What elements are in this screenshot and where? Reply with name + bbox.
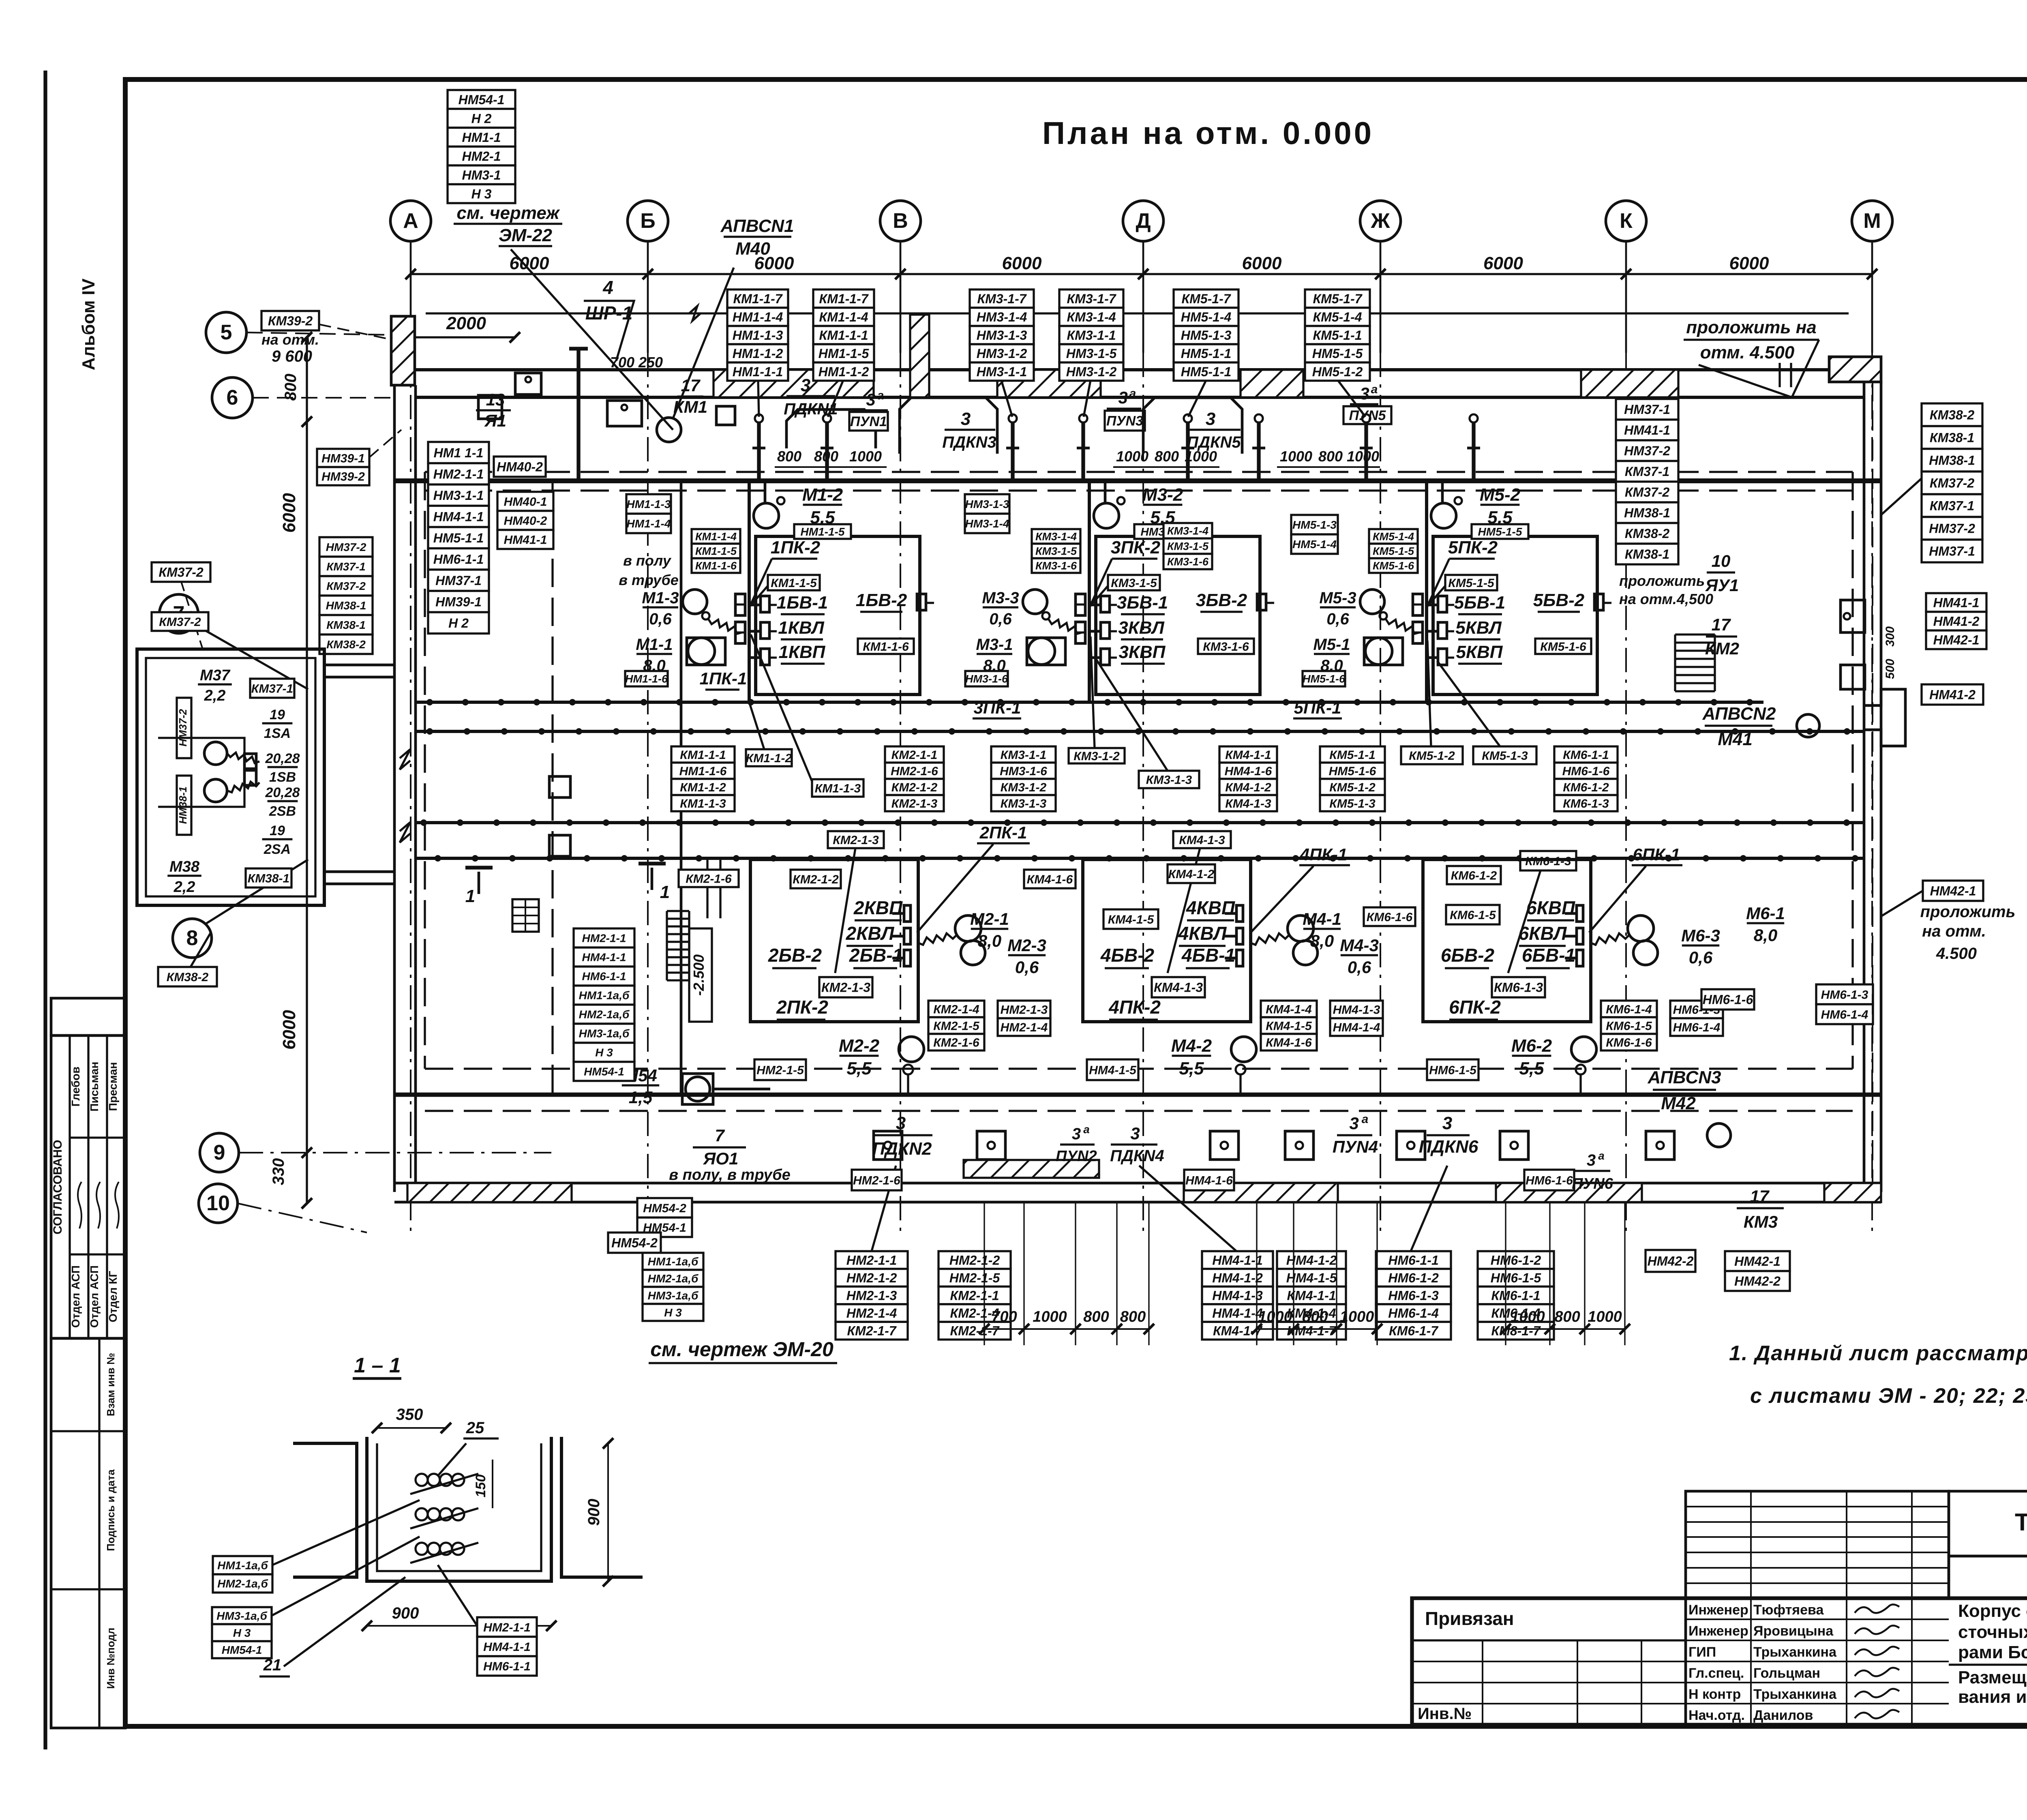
label 3КВЛ xyxy=(1118,618,1164,639)
svg-text:0,6: 0,6 xyxy=(1326,610,1349,628)
svg-text:М42: М42 xyxy=(1661,1093,1696,1113)
svg-text:КМ3-1-6: КМ3-1-6 xyxy=(1035,560,1077,572)
leader KM1-1-2 to riser xyxy=(750,705,764,749)
label APVS N1 / M40 xyxy=(720,216,794,259)
stack NM2-1-1 group bottom xyxy=(836,1251,908,1340)
grid circle 9 xyxy=(200,1133,239,1172)
label 1ПК-2 xyxy=(771,538,821,559)
label stack NM3-1-3/NM3-1-4 xyxy=(965,494,1009,533)
KM1 contactor box with pin xyxy=(607,401,642,426)
svg-text:КМ37-2: КМ37-2 xyxy=(159,565,204,580)
svg-text:6000: 6000 xyxy=(1002,253,1042,273)
leader KM6-1-3 to unit6 box xyxy=(1508,870,1541,973)
label KM2-1-2 single xyxy=(791,870,841,888)
label 5БВ-2 xyxy=(1533,590,1585,612)
svg-text:План на отм. 0.000: План на отм. 0.000 xyxy=(1042,115,1374,151)
svg-text:4БВ-1: 4БВ-1 xyxy=(1181,945,1235,966)
svg-text:НМ40-2: НМ40-2 xyxy=(504,514,547,527)
svg-text:НМ2-1-6: НМ2-1-6 xyxy=(853,1174,900,1187)
svg-text:СОГЛАСОВАНО: СОГЛАСОВАНО xyxy=(51,1140,64,1235)
svg-text:НМ4-1-6: НМ4-1-6 xyxy=(1185,1174,1233,1187)
svg-text:НМ6-1-6: НМ6-1-6 xyxy=(1703,993,1753,1007)
svg-text:Размещение электрооборудо-: Размещение электрооборудо- xyxy=(1958,1668,2027,1687)
svg-text:КМ6-1-6: КМ6-1-6 xyxy=(1606,1036,1652,1049)
svg-text:300: 300 xyxy=(1883,626,1897,647)
svg-text:вания и прокладка кабеля: вания и прокладка кабеля xyxy=(1958,1687,2027,1707)
svg-text:КМ3-1-5: КМ3-1-5 xyxy=(1035,545,1077,557)
right wall cable risers xyxy=(1872,381,1873,1183)
svg-text:НМ6-1-1: НМ6-1-1 xyxy=(1388,1253,1438,1267)
svg-text:2КВП: 2КВП xyxy=(853,897,903,918)
dimension 2000 top-left xyxy=(402,313,520,343)
svg-text:КМ2-1-5: КМ2-1-5 xyxy=(933,1019,980,1033)
grid circle В xyxy=(880,201,921,353)
svg-text:1ПК-1: 1ПК-1 xyxy=(700,669,747,688)
svg-text:НМ5-1-1: НМ5-1-1 xyxy=(1181,346,1231,361)
stack NM2-1-2 group bottom xyxy=(939,1251,1011,1340)
title block upper table xyxy=(1686,1491,1949,1598)
svg-text:НМ3-1-6: НМ3-1-6 xyxy=(1000,765,1047,778)
stack KM2-1-4,5,6 bottom xyxy=(928,1001,984,1050)
svg-text:ПУN6: ПУN6 xyxy=(1572,1175,1613,1192)
svg-text:3КВП: 3КВП xyxy=(1119,642,1166,662)
svg-text:Альбом IV: Альбом IV xyxy=(79,278,99,370)
svg-text:КМ37-1: КМ37-1 xyxy=(1625,464,1669,479)
svg-text:Инженер: Инженер xyxy=(1688,1623,1748,1639)
label M4-1/8,0 xyxy=(1303,909,1341,950)
svg-text:НМ1-1-6: НМ1-1-6 xyxy=(679,765,727,778)
top wall double line xyxy=(416,368,1864,371)
svg-text:КМ6-1-3: КМ6-1-3 xyxy=(1494,980,1543,995)
svg-text:3: 3 xyxy=(801,375,810,395)
label M2-1/8,0 xyxy=(970,909,1009,950)
label NM6-1-6 single right xyxy=(1701,989,1754,1010)
label KM5-1-3 xyxy=(1473,746,1536,764)
label stack NM5-1-3/NM5-1-4 xyxy=(1291,515,1338,554)
section 1-1 stack NM1-1a,b xyxy=(213,1556,272,1593)
svg-text:2,2: 2,2 xyxy=(204,687,226,704)
svg-text:НМ3-1-5: НМ3-1-5 xyxy=(1066,346,1117,361)
label 13/Ya1 xyxy=(476,390,511,430)
svg-text:КМ2-1-2: КМ2-1-2 xyxy=(793,873,839,886)
note prolozhit na otm 4.500 (top right) xyxy=(1684,317,1819,397)
right wall of hall xyxy=(1863,381,1866,1192)
label KM3-1-5 box xyxy=(1108,575,1160,590)
label 4КВЛ xyxy=(1178,923,1227,946)
svg-text:НМ5-1-3: НМ5-1-3 xyxy=(1181,328,1232,343)
grid circle 8 xyxy=(173,919,212,958)
svg-text:ЯО1: ЯО1 xyxy=(703,1149,739,1168)
svg-text:а: а xyxy=(1598,1149,1605,1162)
svg-text:НМ1-1-3: НМ1-1-3 xyxy=(627,498,671,510)
svg-text:3: 3 xyxy=(1349,1114,1358,1133)
svg-text:КМ5-1-2: КМ5-1-2 xyxy=(1329,781,1376,794)
stack NM1-1a,b see EM-20 xyxy=(643,1253,703,1321)
label stack NM39-1/NM39-2 xyxy=(317,449,369,485)
svg-text:КМ3-1-2: КМ3-1-2 xyxy=(1001,781,1047,794)
label M3-3/0,6 xyxy=(982,589,1019,628)
grid circle Ж xyxy=(1360,201,1401,353)
push station PU N5 xyxy=(1343,383,1391,424)
svg-text:Н контр: Н контр xyxy=(1688,1687,1741,1702)
wall boxes left mid xyxy=(549,776,570,797)
svg-text:Отдел КГ: Отдел КГ xyxy=(107,1271,119,1322)
label KM37-2 above annex xyxy=(152,562,210,582)
staircase top right xyxy=(1675,635,1715,691)
label NM5-1-6 box xyxy=(1303,671,1346,686)
svg-text:КМ3-1-5: КМ3-1-5 xyxy=(1167,540,1209,553)
svg-text:НМ41-2: НМ41-2 xyxy=(1933,614,1980,629)
label NM6-1-5 box bottom xyxy=(1427,1059,1478,1080)
title block object name cell xyxy=(1949,1601,2027,1665)
svg-text:700 250: 700 250 xyxy=(610,354,663,371)
svg-text:М1-3: М1-3 xyxy=(642,589,679,607)
stack KM1-1-1 group xyxy=(671,746,735,811)
vacuum filter unit 5 outline xyxy=(1360,481,1611,702)
svg-text:0,6: 0,6 xyxy=(1015,958,1039,977)
svg-text:Привязан: Привязан xyxy=(1425,1608,1514,1629)
svg-text:ПУN2: ПУN2 xyxy=(1056,1148,1097,1165)
label NM41-2 single xyxy=(1922,684,1983,705)
section 1-1 stack NM3-1a,b xyxy=(212,1607,272,1658)
label 2КВП xyxy=(853,897,903,920)
svg-text:отм. 4.500: отм. 4.500 xyxy=(1700,343,1795,362)
stack NM6-1-1 group bottom xyxy=(1376,1251,1451,1340)
label APVS N3 / M42 xyxy=(1647,1068,1721,1113)
svg-text:М4-1: М4-1 xyxy=(1303,909,1341,928)
label stack unit5 left xyxy=(1174,289,1238,381)
label NM3-1-5 box xyxy=(1134,524,1191,539)
svg-text:КМ5-1-2: КМ5-1-2 xyxy=(1409,749,1455,763)
svg-text:НМ3-1-4: НМ3-1-4 xyxy=(965,517,1009,530)
stack KM2-1-1 group xyxy=(885,746,944,811)
svg-text:КМ5-1-3: КМ5-1-3 xyxy=(1482,749,1528,763)
label KM5-1-5 box xyxy=(1445,575,1497,590)
svg-text:проложить на: проложить на xyxy=(1686,317,1817,337)
cable dashed run below gallery floor xyxy=(425,489,1853,491)
gallery dims 1000 800 1000 (PU5) xyxy=(1277,448,1380,467)
label KM6-1-3 box xyxy=(1492,977,1545,997)
label stack unit3 right xyxy=(1059,289,1123,381)
svg-text:1: 1 xyxy=(465,886,475,906)
svg-text:4КВЛ: 4КВЛ xyxy=(1178,923,1227,944)
svg-text:КМ2-1-3: КМ2-1-3 xyxy=(833,834,879,847)
svg-text:КМ3-1-7: КМ3-1-7 xyxy=(1067,292,1116,306)
svg-text:КМ37-2: КМ37-2 xyxy=(159,615,201,629)
svg-text:1000: 1000 xyxy=(1116,448,1148,465)
svg-text:НМ37-2: НМ37-2 xyxy=(326,541,366,553)
break mark on left wall xyxy=(400,749,410,770)
label M4-3/0,6 xyxy=(1340,936,1379,977)
svg-text:НМ1-1-4: НМ1-1-4 xyxy=(733,310,783,324)
svg-text:6000: 6000 xyxy=(1242,253,1282,273)
label stack NM40-1/NM40-2/NM41-1 xyxy=(497,492,553,549)
label 17/KM1 xyxy=(673,376,707,416)
svg-text:КМ3-1-4: КМ3-1-4 xyxy=(1067,310,1116,324)
bottom wall double line xyxy=(394,1182,1881,1185)
svg-text:НМ6-1-1: НМ6-1-1 xyxy=(433,552,484,566)
svg-text:НМ42-2: НМ42-2 xyxy=(1734,1274,1781,1288)
annex label M38/2,2 xyxy=(167,858,201,896)
label M3-1/8,0 xyxy=(976,636,1013,675)
stack NM4-1-1 group bottom xyxy=(1202,1251,1273,1340)
label M2-3/0,6 xyxy=(1007,936,1046,977)
label KM3-1-6 box xyxy=(1198,639,1254,654)
label KM6-1-5 single xyxy=(1446,905,1500,924)
svg-text:КМ6-1-3: КМ6-1-3 xyxy=(1525,855,1571,868)
svg-text:1000: 1000 xyxy=(1511,1308,1545,1325)
annex label 20,28/1SB xyxy=(265,751,300,785)
svg-text:Н 3: Н 3 xyxy=(595,1046,613,1059)
svg-text:КМ37-1: КМ37-1 xyxy=(326,560,366,573)
svg-text:КМ39-2: КМ39-2 xyxy=(268,314,313,328)
svg-text:НМ6-1-3: НМ6-1-3 xyxy=(1821,988,1868,1001)
stack KM4-1-4,5,6 bottom xyxy=(1261,1001,1317,1050)
label 6БВ-2 xyxy=(1441,945,1495,968)
svg-text:1БВ-1: 1БВ-1 xyxy=(777,593,828,613)
svg-text:7: 7 xyxy=(715,1126,725,1145)
svg-text:700: 700 xyxy=(991,1308,1017,1325)
label KM6-1-3 mid xyxy=(1520,851,1576,870)
grid circle К xyxy=(1606,201,1646,353)
svg-text:Инв.№: Инв.№ xyxy=(1418,1705,1472,1723)
svg-text:НМ2-1: НМ2-1 xyxy=(462,149,501,163)
svg-text:КМ5-1-1: КМ5-1-1 xyxy=(1329,748,1375,762)
label stack unit5 right xyxy=(1305,289,1370,381)
svg-text:Трыханкина: Трыханкина xyxy=(1753,1687,1837,1702)
svg-text:НМ1-1-5: НМ1-1-5 xyxy=(819,346,870,361)
label stack unit1 right xyxy=(813,289,874,381)
svg-text:КМ5-1-6: КМ5-1-6 xyxy=(1540,640,1586,654)
svg-text:6БВ-1: 6БВ-1 xyxy=(1522,945,1575,966)
svg-text:ШР-1: ШР-1 xyxy=(585,302,633,324)
stack NM37-2 annex related xyxy=(319,537,373,654)
title block left privyazan box xyxy=(1412,1598,1686,1725)
label 4КВП xyxy=(1186,897,1235,920)
label 1КВП xyxy=(779,642,826,664)
svg-text:9: 9 xyxy=(214,1141,225,1164)
svg-text:НМ41-1: НМ41-1 xyxy=(1933,596,1980,610)
svg-text:9 600: 9 600 xyxy=(272,347,312,365)
bottom wall hatched segment 2 xyxy=(964,1160,1099,1178)
svg-text:а: а xyxy=(1129,387,1136,400)
grid circle А xyxy=(390,201,431,353)
svg-text:М4-2: М4-2 xyxy=(1171,1036,1212,1056)
svg-text:НМ54-1: НМ54-1 xyxy=(584,1065,624,1078)
svg-text:5: 5 xyxy=(221,321,232,344)
label KM3-1-3 xyxy=(1139,771,1199,788)
svg-text:КМ2-1-6: КМ2-1-6 xyxy=(686,872,732,885)
label KM1-1-6 box xyxy=(858,639,914,654)
svg-text:проложить: проложить xyxy=(1920,903,2016,921)
label M5-1/8,0 xyxy=(1313,636,1350,675)
svg-text:см. чертеж ЭМ-20: см. чертеж ЭМ-20 xyxy=(650,1338,834,1361)
grid circle 7 xyxy=(159,594,198,633)
svg-text:17: 17 xyxy=(1712,615,1731,634)
svg-text:НМ2-1-1: НМ2-1-1 xyxy=(582,932,626,945)
staircase bottom left xyxy=(667,911,689,980)
svg-text:КМ1-1-1: КМ1-1-1 xyxy=(819,328,868,343)
push station PU N6 xyxy=(1572,1149,1613,1192)
label KM6-1-6 single xyxy=(1364,907,1415,926)
stack KM3-1-4,5,6 xyxy=(1032,529,1080,573)
svg-text:КМ4-1-6: КМ4-1-6 xyxy=(1266,1036,1312,1049)
svg-text:КМ38-1: КМ38-1 xyxy=(326,619,366,631)
svg-text:М1-2: М1-2 xyxy=(802,485,843,505)
svg-text:НМ5-1-4: НМ5-1-4 xyxy=(1292,538,1337,551)
svg-text:а: а xyxy=(877,389,884,402)
svg-text:НМ41-1: НМ41-1 xyxy=(1624,423,1670,437)
bottom wall hatched segment 3 xyxy=(1184,1183,1338,1202)
stack KM4-1-1 group xyxy=(1219,746,1277,811)
annex outer wall xyxy=(137,649,324,905)
leader KM1-1-3 to unit1 xyxy=(751,635,815,788)
top wall hatched segment 2 (vertical pier) xyxy=(910,315,929,397)
vacuum filter unit 6 outline (bottom row) xyxy=(1423,860,1658,1095)
push station PU N2 xyxy=(1056,1123,1097,1165)
svg-text:0,6: 0,6 xyxy=(1348,958,1371,977)
svg-text:КМ2-1-7: КМ2-1-7 xyxy=(950,1324,1000,1338)
svg-text:17: 17 xyxy=(1750,1187,1770,1206)
annex motor M38 circle xyxy=(204,779,227,802)
svg-text:КМ6-1-2: КМ6-1-2 xyxy=(1563,781,1609,794)
leader b3 stack to PDK4 xyxy=(1139,1166,1236,1251)
svg-text:М40: М40 xyxy=(735,239,770,259)
svg-text:КМ3-1-6: КМ3-1-6 xyxy=(1167,556,1209,568)
svg-text:КМ4-1-4: КМ4-1-4 xyxy=(1266,1003,1312,1016)
label stack NM1-1-3/NM1-1-4 xyxy=(626,494,671,533)
svg-text:Инженер: Инженер xyxy=(1688,1602,1748,1618)
svg-text:1КВЛ: 1КВЛ xyxy=(778,618,824,638)
label 17/KM2 xyxy=(1705,615,1739,658)
svg-text:КМ37-2: КМ37-2 xyxy=(1930,476,1975,491)
label 2ПК-1 xyxy=(977,823,1030,843)
box at gallery left xyxy=(478,395,502,419)
svg-text:500: 500 xyxy=(1883,659,1897,679)
cable dashed run above gallery floor xyxy=(425,471,1853,473)
section 1-1 dim 900 vertical xyxy=(585,1438,613,1586)
svg-text:КМ2-1-3: КМ2-1-3 xyxy=(891,797,938,810)
label M1-3/0,6 xyxy=(642,589,679,628)
svg-text:КМ2-1-3: КМ2-1-3 xyxy=(821,980,870,995)
svg-text:НМ2-1а,б: НМ2-1а,б xyxy=(217,1578,268,1590)
vacuum filter unit 4 outline (bottom row) xyxy=(1083,860,1318,1095)
svg-text:НМ54-2: НМ54-2 xyxy=(643,1202,686,1215)
svg-text:НМ3-1-2: НМ3-1-2 xyxy=(977,346,1027,361)
label KM37-2 left of frame area xyxy=(152,612,208,631)
label stack NM54-1 (top) xyxy=(448,90,515,203)
svg-text:НМ39-1: НМ39-1 xyxy=(435,594,482,609)
svg-text:КМ4-1-3: КМ4-1-3 xyxy=(1154,980,1203,995)
svg-text:НМ3-1а,б: НМ3-1а,б xyxy=(216,1610,267,1622)
label 2КВЛ xyxy=(846,923,895,946)
svg-text:М6-1: М6-1 xyxy=(1746,904,1785,923)
bottom dims 1000 800 1000 (unit4) xyxy=(1251,1203,1382,1345)
top wall hatched segment 4 xyxy=(1241,370,1303,397)
gallery floor line xyxy=(394,478,1881,483)
label APVS N2 / M41 xyxy=(1702,704,1776,749)
label NM3-1-6 box xyxy=(965,671,1008,686)
label 1БВ-2 xyxy=(856,590,907,612)
svg-text:4: 4 xyxy=(602,277,613,298)
svg-text:Данилов: Данилов xyxy=(1753,1708,1813,1723)
svg-text:НМ3-1-1: НМ3-1-1 xyxy=(977,364,1027,379)
annex label NM37-2 rotated xyxy=(177,698,191,758)
leader b5 stack to PDK6 xyxy=(1411,1166,1447,1251)
svg-text:НМ38-1: НМ38-1 xyxy=(1929,453,1975,468)
svg-text:М5-3: М5-3 xyxy=(1319,589,1356,607)
left vertical dimension line xyxy=(306,337,308,1203)
svg-text:6000: 6000 xyxy=(1729,253,1769,273)
svg-text:2ПК-1: 2ПК-1 xyxy=(979,823,1027,842)
svg-text:М: М xyxy=(1863,209,1881,233)
svg-text:КМ37-1: КМ37-1 xyxy=(251,682,293,695)
stack NM37 right side (by K) xyxy=(1616,399,1678,564)
svg-text:КМ4-1-6: КМ4-1-6 xyxy=(1027,873,1073,886)
svg-text:800: 800 xyxy=(1120,1308,1146,1325)
label 3КВП xyxy=(1119,642,1166,664)
label NM1-1-5 box xyxy=(794,524,851,539)
svg-text:КМ1-1-2: КМ1-1-2 xyxy=(680,781,726,794)
svg-text:0,6: 0,6 xyxy=(1689,948,1713,967)
push station PU N4 xyxy=(1333,1113,1378,1156)
stack NM2-1-3,4 bottom xyxy=(998,1001,1050,1036)
svg-text:М5-1: М5-1 xyxy=(1313,636,1350,654)
label NM54-2 box xyxy=(608,1233,661,1253)
note see drawing EM-20 xyxy=(649,1338,837,1363)
svg-text:КМ4-1-5: КМ4-1-5 xyxy=(1108,913,1155,926)
label 3ПК-1 xyxy=(973,698,1021,718)
label KM1-1-2 xyxy=(746,749,792,766)
cable run 1 with junction dots xyxy=(416,701,1763,704)
svg-text:Б: Б xyxy=(640,209,655,233)
svg-text:3: 3 xyxy=(1360,384,1369,403)
leader KM3-1-2 to unit3 xyxy=(1091,637,1095,748)
svg-text:НМ1-1-5: НМ1-1-5 xyxy=(801,525,845,538)
svg-text:М1-1: М1-1 xyxy=(636,636,673,654)
svg-text:КМ5-1-7: КМ5-1-7 xyxy=(1181,292,1231,306)
svg-text:КМ3-1-2: КМ3-1-2 xyxy=(1073,750,1120,763)
svg-text:Корпус обезвоживания осадка: Корпус обезвоживания осадка xyxy=(1958,1601,2027,1621)
svg-text:800: 800 xyxy=(1302,1308,1328,1325)
svg-text:0,6: 0,6 xyxy=(989,610,1012,628)
svg-text:НМ39-2: НМ39-2 xyxy=(321,470,365,483)
svg-text:КМ3-1-4: КМ3-1-4 xyxy=(1167,525,1208,537)
label stack unit3 left xyxy=(970,289,1034,381)
svg-text:3: 3 xyxy=(866,390,875,409)
section 1-1 title xyxy=(353,1354,401,1378)
svg-text:5БВ-2: 5БВ-2 xyxy=(1533,590,1585,610)
svg-text:НМ2-1-5: НМ2-1-5 xyxy=(949,1271,1001,1285)
grid box left of unit2 xyxy=(512,899,539,932)
svg-text:Гл.спец.: Гл.спец. xyxy=(1688,1666,1744,1681)
svg-text:М6-2: М6-2 xyxy=(1511,1036,1552,1056)
svg-text:1000: 1000 xyxy=(1347,448,1379,465)
leader KM2-1-3 to unit2 box xyxy=(835,848,855,973)
svg-text:3ПК-2: 3ПК-2 xyxy=(1111,538,1161,557)
svg-text:1000: 1000 xyxy=(1033,1308,1067,1325)
bottom dims 700 1000 800 800 xyxy=(979,1203,1154,1345)
svg-text:3БВ-1: 3БВ-1 xyxy=(1117,593,1168,613)
svg-text:4КВП: 4КВП xyxy=(1186,897,1235,918)
top wall hatched segment 5 xyxy=(1581,370,1678,397)
svg-text:НМ41-2: НМ41-2 xyxy=(1929,688,1976,702)
label 7/YaO1 xyxy=(693,1126,746,1168)
svg-text:НМ2-1-4: НМ2-1-4 xyxy=(1001,1021,1048,1034)
svg-text:1000: 1000 xyxy=(1340,1308,1374,1325)
M42 motor circle xyxy=(1707,1123,1731,1147)
stack KM3-1-1 group xyxy=(991,746,1056,811)
